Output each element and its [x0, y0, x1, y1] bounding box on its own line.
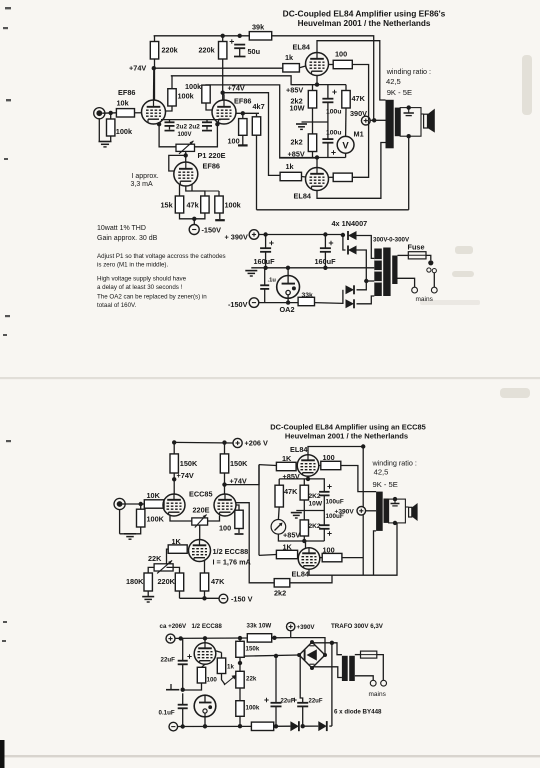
wire 100 to screen bus — [352, 65, 368, 121]
wire AC node to bias diodes — [331, 643, 333, 726]
svg-text:9K - 5E: 9K - 5E — [373, 480, 398, 489]
svg-text:-150V: -150V — [202, 226, 222, 235]
terminal mains right — [431, 287, 437, 293]
svg-text:220E: 220E — [193, 506, 210, 515]
svg-text:100: 100 — [323, 546, 335, 555]
svg-text:10W: 10W — [309, 501, 323, 508]
svg-text:33k 10W: 33k 10W — [247, 623, 272, 630]
bridge rectifier 6x BY448 — [297, 640, 327, 670]
svg-text:47k: 47k — [187, 201, 200, 210]
resistor 33k — [298, 297, 314, 305]
wire cathode top node — [291, 84, 346, 86]
ground secondary T3 — [391, 499, 400, 506]
wire 2K2 s2b bottom — [303, 536, 305, 541]
capacitor 160uF 2 plates — [320, 248, 331, 252]
tube EL84 top — [306, 53, 329, 76]
node 390 stub — [272, 636, 276, 640]
wire V3 leg 47k — [186, 186, 205, 196]
resistor 100 cath — [235, 510, 243, 528]
svg-text:V: V — [342, 141, 349, 152]
wire ecc88 psu anode — [204, 638, 206, 643]
svg-text:4x 1N4007: 4x 1N4007 — [332, 219, 368, 228]
svg-text:160uF: 160uF — [315, 257, 337, 266]
wire rail to 390 stub — [272, 637, 291, 639]
svg-text:+85V: +85V — [286, 86, 303, 95]
resistor 100k g2 V1 — [168, 89, 176, 106]
node cathode bottom — [315, 155, 319, 159]
resistor 100 g2 bottom — [333, 173, 352, 181]
wire T4 to fuse — [355, 654, 361, 656]
wire 390V to CT — [370, 119, 385, 121]
node B+ at 220k2 — [221, 34, 225, 38]
wire to 1K top — [259, 464, 276, 467]
resistor 100 s2 top — [321, 461, 341, 469]
wire 100uF s2a bottom — [323, 495, 325, 525]
svg-text:ca +206V: ca +206V — [160, 623, 188, 630]
wire 100k g2 V1 top lead — [171, 76, 173, 89]
speaker LS1 — [424, 109, 435, 133]
plus 22uF2 psu2 — [292, 698, 296, 702]
wire anode s2 bottom — [309, 569, 374, 575]
svg-text:-150 V: -150 V — [231, 595, 253, 604]
node rail 22uF2 — [301, 724, 305, 728]
ground bar psu2 — [166, 689, 179, 691]
wire 100k g2 V2 bottom — [206, 103, 212, 110]
transformer T4 secondary — [349, 656, 355, 681]
node 2K2b bottom — [302, 539, 306, 543]
wire 1K left down — [167, 549, 169, 567]
scan corner mark bottom-left — [0, 740, 5, 768]
wire 50u bottom stub — [239, 48, 241, 56]
svg-text:mains: mains — [416, 296, 434, 303]
svg-text:220k: 220k — [162, 46, 179, 55]
svg-text:1k: 1k — [227, 664, 234, 671]
wire 160uF2 top lead — [324, 235, 326, 249]
resistor 39k — [249, 32, 271, 40]
wire ECC85b cathode — [208, 516, 220, 522]
svg-text:3,3 mA: 3,3 mA — [131, 181, 154, 188]
node +74V 2 — [221, 91, 225, 95]
svg-text:1/2 ECC88: 1/2 ECC88 — [192, 623, 223, 630]
svg-text:totaal of 160V.: totaal of 160V. — [97, 302, 137, 309]
svg-text:0.1uF: 0.1uF — [159, 710, 175, 717]
wire 85A2 bottom — [204, 717, 206, 727]
ground mid — [296, 124, 307, 129]
resistor 100 V2 — [239, 119, 247, 136]
wire 22uF left bottom — [182, 664, 184, 689]
wire psu2 minus rail a — [178, 725, 252, 727]
svg-text:1k: 1k — [285, 53, 294, 62]
plus 160uF2 — [329, 241, 333, 245]
svg-text:EL84: EL84 — [293, 43, 311, 52]
svg-text:22uF: 22uF — [161, 657, 176, 664]
svg-text:100: 100 — [207, 677, 218, 684]
svg-text:100: 100 — [323, 453, 335, 462]
resistor 1k EL84 top grid — [283, 64, 300, 72]
wire 2K2 s2a mid — [303, 500, 305, 520]
resistor 2K2 s2 b — [300, 520, 308, 536]
node 150K2 top — [222, 440, 226, 444]
svg-text:100k: 100k — [185, 82, 202, 91]
capacitor 100u lower plates — [322, 139, 333, 143]
resistor 100k g2 V2 — [202, 85, 210, 103]
bar 2u2 C2 bottom — [202, 130, 212, 132]
capacitor 2u2 C2 plates — [202, 122, 212, 126]
capacitor 160uF 1 plates — [260, 248, 271, 252]
wire 2k2 bottom lead — [312, 152, 314, 158]
input jack J1 — [94, 108, 105, 119]
wire OA2 bottom — [287, 298, 289, 302]
diode D4 1N4007 — [346, 299, 355, 308]
node AC1 — [330, 641, 334, 645]
resistor 150K 2 — [220, 454, 228, 473]
svg-text:2K2: 2K2 — [309, 523, 321, 530]
wire stub up to 390V — [290, 631, 292, 638]
plus 160uF1 — [269, 241, 273, 245]
wire AC node to trafo top — [332, 643, 342, 655]
wire 2u2 C2 bottom — [206, 126, 208, 130]
wire cathode link line — [161, 119, 221, 121]
scan specks left edge — [2, 7, 11, 642]
wire 47K to meter — [277, 507, 280, 520]
wire 22K left to 180K — [148, 567, 154, 573]
wire D1 out — [357, 236, 375, 259]
ground 180K — [142, 597, 154, 602]
node D2-D3 link — [364, 279, 368, 283]
resistor 47K s2 — [275, 485, 283, 507]
resistor 4k7 — [252, 117, 260, 135]
svg-text:is zero (M1 in the middle).: is zero (M1 in the middle). — [97, 262, 168, 269]
wire tube to 100 — [329, 64, 334, 66]
svg-text:100k: 100k — [178, 92, 195, 101]
wire winding mid tap — [366, 280, 374, 282]
wire screen bus lower — [352, 120, 368, 177]
resistor 100K in2 — [137, 509, 145, 527]
wire 100k psu bottom — [239, 716, 241, 726]
node rail 22uFL — [181, 724, 185, 728]
wire psu2 minus rail c — [301, 725, 318, 727]
wire pot wiper to EF86 V3 — [185, 151, 187, 162]
tube ECC85 b — [214, 494, 236, 516]
wire 22uF left top — [182, 638, 184, 660]
wire DC couple b2 — [258, 465, 260, 556]
svg-text:10W: 10W — [290, 104, 305, 113]
node T3 secondary bottom — [393, 521, 397, 525]
wire 1k psu bottom arrow — [222, 674, 226, 685]
wire 220k R2 leads — [222, 36, 224, 42]
capacitor 22uF2 psu2 plates — [297, 703, 308, 707]
potentiometer 22k psu — [224, 671, 244, 688]
svg-text:1/2 ECC88: 1/2 ECC88 — [213, 547, 249, 556]
node mid OA2 — [286, 266, 290, 270]
plus 100uF s2b — [327, 531, 331, 535]
tube OA2 — [277, 276, 300, 299]
svg-text:9K - 5E: 9K - 5E — [387, 88, 412, 97]
wire B+ top rail — [154, 35, 250, 37]
transformer T1 secondary box — [400, 108, 421, 137]
wire 2u2 C1 bottom — [169, 126, 171, 130]
terminal mains left — [412, 287, 418, 293]
tube EL84 bottom — [306, 168, 329, 191]
wire mid node s2 — [296, 510, 324, 512]
svg-text:220K: 220K — [158, 577, 176, 586]
wire 220k R1 bottom to +74V node — [154, 59, 156, 100]
wire 100u upper bottom — [327, 102, 329, 139]
wire winding bottom to mains L — [398, 278, 415, 287]
resistor rail psu2 — [251, 722, 273, 730]
wire OA2 top — [287, 268, 289, 276]
terminal -150V s2 — [219, 594, 228, 603]
wire 22uF1 psu2 bottom — [275, 706, 277, 726]
svg-text:2K2: 2K2 — [309, 493, 321, 500]
plus 22uF left — [187, 654, 191, 658]
transformer T3 secondary box — [389, 499, 406, 523]
wire 100u upper top — [327, 85, 329, 99]
svg-text:winding ratio :: winding ratio : — [372, 459, 417, 468]
svg-text:47K: 47K — [284, 487, 298, 496]
scan fold line bottom — [0, 755, 540, 757]
svg-text:OA2: OA2 — [280, 305, 295, 314]
node V2 out — [241, 111, 245, 115]
node input divider — [109, 111, 113, 115]
wire to 1K bottom — [259, 554, 276, 557]
wire secondary return — [408, 136, 410, 210]
wire 4k7 top — [256, 113, 258, 117]
capacitor 100uF s2b plates — [319, 525, 330, 529]
svg-text:+206 V: +206 V — [245, 439, 268, 448]
svg-text:150k: 150k — [246, 646, 260, 653]
wire 100 s2b right — [342, 557, 363, 559]
wire B+ rail to transformer CT — [272, 36, 374, 121]
wire 100 V2 bottom — [242, 135, 244, 145]
terminal mains left 2 — [370, 680, 376, 686]
wire 160uF1 bottom lead — [265, 252, 267, 268]
wire 2u2 C1 top stub — [169, 120, 171, 123]
scan smudges — [420, 55, 532, 398]
node cathode top — [315, 82, 319, 86]
wire 01uF bottom — [182, 708, 184, 726]
node 85A2 rail — [203, 724, 207, 728]
svg-text:mains: mains — [369, 691, 387, 698]
svg-text:47K: 47K — [352, 94, 366, 103]
node mid 160uF2 — [323, 266, 327, 270]
node 160uF1 top — [263, 232, 267, 236]
tube EF86 V3 — [174, 162, 198, 186]
wire 1K s2 to grid — [296, 465, 297, 468]
resistor 10k — [116, 109, 134, 117]
svg-text:10K: 10K — [147, 491, 161, 500]
svg-text:100uF: 100uF — [326, 499, 344, 506]
svg-text:TRAFO 300V 6,3V: TRAFO 300V 6,3V — [331, 623, 384, 630]
svg-text:22k: 22k — [246, 676, 257, 683]
wire V1 cathode to pot — [159, 124, 176, 147]
svg-text:I approx.: I approx. — [132, 173, 159, 180]
wire D2 out — [357, 250, 367, 290]
wire tube to 100 s2b — [320, 557, 322, 559]
wire 150k psu top — [239, 638, 241, 641]
resistor 1K ecc88 — [168, 545, 187, 553]
wire 15k 47k bottoms — [180, 213, 205, 219]
svg-text:EF86: EF86 — [118, 88, 135, 97]
ground input — [99, 142, 112, 147]
diode D6 BY448 — [318, 721, 327, 731]
node 200uF top — [274, 654, 278, 658]
svg-text:+85V: +85V — [283, 531, 300, 540]
ground bar 100 V2 — [238, 144, 248, 146]
node T3 secondary top — [393, 497, 397, 501]
capacitor 22uF psu left plates — [178, 661, 188, 665]
diode D2 1N4007 — [348, 246, 357, 255]
capacitor 22uF1 psu2 plates — [271, 703, 282, 707]
diode D1 1N4007 — [348, 231, 357, 240]
svg-text:DC-Coupled EL84 Amplifier usin: DC-Coupled EL84 Amplifier using EF86's — [283, 9, 446, 19]
wire to 100K — [140, 504, 142, 509]
resistor 1K s2 bottom — [276, 550, 297, 558]
wire 2u2 C2 top stub — [206, 120, 208, 123]
resistor 100 s2 bottom — [322, 553, 342, 561]
wire switch to mains R — [433, 273, 435, 287]
resistor 100 g2 top — [333, 60, 352, 68]
transformer T2 secondary — [392, 256, 397, 285]
node rail 150k — [238, 636, 242, 640]
wire wiper branch left — [169, 155, 186, 171]
node 22k top — [238, 661, 242, 665]
svg-text:+85V: +85V — [283, 472, 300, 481]
terminal -150V PSU1 — [249, 298, 259, 308]
capacitor 2u2 C1 plates — [165, 122, 175, 126]
svg-text:1K: 1K — [283, 543, 293, 552]
wire 100K to ground — [120, 527, 141, 534]
resistor 47k tail — [201, 196, 209, 213]
svg-text:39k: 39k — [252, 23, 265, 32]
wire tube to 100 bottom — [329, 176, 334, 178]
wire bridge top to AC node — [312, 641, 332, 644]
wire 1k bottom to grid — [302, 176, 306, 179]
wire DC couple b — [225, 465, 260, 485]
svg-text:+74V: +74V — [129, 64, 146, 73]
terminal +390V psu2 — [287, 622, 295, 630]
wire 220E wiper down — [199, 525, 201, 540]
terminal +390V PSU1 — [249, 230, 259, 240]
wire 390V s2 to CT — [366, 510, 377, 512]
wire EL84 top cathode — [316, 76, 318, 85]
resistor 47K ecc88 — [200, 573, 208, 591]
svg-text:100: 100 — [335, 50, 347, 59]
svg-text:The OA2 can be replaced by zen: The OA2 can be replaced by zener(s) in — [97, 294, 207, 301]
wire fuse to mains R — [377, 655, 384, 680]
terminal 390V mid — [361, 116, 370, 125]
wire 1k to grid — [299, 66, 305, 68]
node +85V s2 — [306, 477, 310, 481]
resistor 150K 1 — [170, 454, 178, 473]
wire pot 22K junction — [167, 567, 180, 573]
node B+ at 50u — [238, 34, 242, 38]
plus 100uF s2a — [327, 484, 331, 488]
wire psu2 plus rail — [175, 637, 247, 639]
wire 2k2 return right — [290, 575, 332, 583]
svg-text:33k: 33k — [302, 292, 314, 299]
wire grid return b — [236, 503, 274, 583]
svg-text:100: 100 — [219, 524, 231, 533]
wire 220k R2 bottom to tube2 — [222, 59, 224, 100]
svg-text:DC-Coupled EL84 Amplifier usin: DC-Coupled EL84 Amplifier using an ECC85 — [270, 423, 426, 432]
svg-text:1K: 1K — [282, 454, 292, 463]
resistor 15k — [175, 196, 183, 213]
wire jack2 to 10K — [123, 503, 145, 505]
transformer T1 secondary winding — [395, 108, 400, 137]
plus 100u lower — [331, 150, 335, 154]
svg-text:100u: 100u — [326, 109, 342, 116]
capacitor 50u plates — [234, 45, 245, 49]
capacitor 100u upper plates — [322, 99, 333, 103]
ground input 2 — [124, 534, 136, 539]
wire 100uF s2a top — [308, 479, 324, 492]
wire 22uF2 psu2 bottom — [302, 706, 304, 726]
wire meter to +85V rail — [278, 534, 324, 541]
wire 47K bottom to meter — [345, 108, 347, 136]
wire cathode s2 bottom — [305, 541, 307, 549]
svg-text:160uF: 160uF — [254, 257, 276, 266]
svg-text:Heuvelman 2001 / the Netherlan: Heuvelman 2001 / the Netherlands — [285, 432, 408, 441]
terminal -150V upper — [189, 225, 199, 235]
wire -150V stub — [193, 219, 195, 225]
terminal +206V psu — [166, 634, 175, 643]
node +74V b — [222, 482, 226, 486]
node OA2 bottom — [286, 300, 290, 304]
svg-text:.1u: .1u — [268, 278, 277, 284]
wire tube to 100 s2 — [319, 465, 321, 467]
wire 10k to EF86 grid — [135, 112, 143, 114]
wire 47K bottom — [204, 591, 206, 598]
svg-text:100k: 100k — [225, 201, 242, 210]
wire PSU1 mid rail — [251, 267, 374, 269]
wire ECC85a cathode — [170, 516, 192, 522]
tube ECC85 a — [163, 494, 185, 516]
svg-text:Adjust P1 so that voltage accr: Adjust P1 so that voltage accross the ca… — [97, 253, 226, 260]
bar 50u bottom — [234, 56, 246, 58]
transformer T3 primary — [376, 492, 383, 531]
node 160uF2 top — [323, 232, 327, 236]
meter M1 s2 — [271, 520, 286, 535]
wire 2k2 mid — [312, 108, 314, 134]
svg-text:1K: 1K — [172, 537, 182, 546]
tube 1/2 ECC88 — [189, 540, 211, 562]
terminal +390V s2 — [357, 507, 366, 516]
capacitor .1u plates — [260, 285, 269, 289]
wire 220K bottom — [179, 591, 181, 598]
tube 1/2 ECC88 psu — [194, 643, 216, 665]
wire EL84 s2 top cathode — [307, 476, 309, 479]
svg-text:4k7: 4k7 — [253, 102, 265, 111]
scan fold line middle — [0, 377, 540, 379]
svg-text:6 x diode BY448: 6 x diode BY448 — [334, 709, 382, 716]
wire 4k7 drop — [256, 135, 258, 210]
wire to 100k input — [110, 113, 112, 119]
svg-text:50u: 50u — [248, 47, 261, 56]
wire D1-D2 anodes — [343, 235, 346, 250]
bar 100 cath bottom — [235, 533, 244, 535]
wire 150K1 leads — [173, 442, 175, 454]
wire 1k psu top — [221, 653, 223, 659]
meter M1 voltmeter — [337, 136, 354, 153]
svg-text:-150V: -150V — [228, 300, 248, 309]
wire 100k g2 feed top — [171, 76, 317, 85]
transformer T4 primary — [342, 656, 348, 681]
wire fuse to switch — [426, 255, 431, 260]
svg-text:EL84: EL84 — [292, 570, 310, 579]
ground bar 100k tail — [215, 219, 225, 221]
wire 150K1 bottom — [173, 473, 175, 494]
